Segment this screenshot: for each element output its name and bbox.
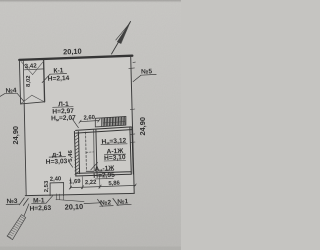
plot boundary: top wall (thick)	[19, 56, 132, 60]
svg-text:№2: №2	[100, 199, 112, 206]
svg-text:Н=2,14: Н=2,14	[48, 75, 70, 83]
paper background	[0, 0, 181, 250]
svg-text:5,86: 5,86	[108, 181, 120, 188]
dimension 2,60	[80, 121, 99, 122]
A-1Zh underline	[104, 153, 125, 156]
K-1 label	[50, 73, 67, 76]
svg-text:№5: №5	[141, 68, 153, 75]
north arrow	[112, 22, 131, 55]
svg-text:Н=2,95: Н=2,95	[93, 172, 115, 180]
K-1 cross	[21, 61, 33, 74]
N=2,95 underline	[95, 177, 113, 180]
svg-text:2,40: 2,40	[50, 176, 62, 183]
plot boundary: left fence	[24, 104, 26, 195]
plot boundary: right fence	[131, 56, 135, 193]
building A-1Zh with annexes: top wall double	[76, 127, 132, 130]
room K-1 (cold annex, top-left)	[19, 60, 20, 104]
svg-text:Н=3,03: Н=3,03	[46, 158, 68, 166]
svg-text:М-1: М-1	[33, 197, 45, 204]
svg-text:24,90: 24,90	[138, 117, 147, 136]
partition	[96, 129, 97, 172]
svg-text:1,69: 1,69	[69, 179, 81, 186]
hatched bar	[7, 215, 26, 240]
svg-text:2,60: 2,60	[83, 115, 95, 122]
svg-text:8,02: 8,02	[26, 75, 32, 87]
d-1 label	[49, 156, 66, 159]
plot interior lighter	[25, 56, 134, 196]
bottom 20,10 dim marks	[56, 194, 58, 200]
porch M-1	[50, 183, 64, 196]
svg-text:№3: №3	[6, 198, 18, 205]
svg-text:20,10: 20,10	[63, 47, 82, 57]
N4	[0, 94, 5, 97]
svg-text:Нм=3,12: Нм=3,12	[101, 137, 126, 145]
plot boundary: bottom fence	[25, 193, 134, 195]
L-1 label	[53, 106, 74, 109]
bottom dimension line of building 1,69/2,22/5,86	[70, 185, 135, 187]
hatched shed strip on top of building	[95, 116, 126, 127]
inner dashed rectangle (mezzanine outline)	[85, 132, 88, 171]
svg-text:Н=3,10: Н=3,10	[104, 154, 126, 162]
svg-text:24,90: 24,90	[11, 126, 20, 145]
N3 underline + slashes + leader	[6, 203, 19, 206]
ticks on right fence	[129, 67, 135, 70]
svg-text:К-1: К-1	[53, 67, 64, 74]
building right wall double	[130, 128, 131, 175]
svg-text:Нм=2,07: Нм=2,07	[51, 115, 76, 123]
N(m)=3,12 underline	[101, 143, 127, 146]
building bottom wall double	[76, 172, 132, 174]
svg-text:20,10: 20,10	[65, 202, 84, 212]
M-1 underline + leader	[32, 202, 46, 205]
svg-text:2,22: 2,22	[85, 180, 97, 187]
svg-text:№4: №4	[5, 87, 17, 94]
A(m) leader	[91, 162, 98, 170]
building left wall double (annex L-1)	[74, 131, 76, 175]
svg-text:5,46: 5,46	[68, 150, 74, 162]
svg-text:3,42: 3,42	[25, 62, 38, 70]
slashes and underlines for N2 N1	[98, 199, 103, 206]
svg-text:Н=2,63: Н=2,63	[29, 205, 51, 213]
N5	[133, 75, 141, 81]
svg-text:№1: №1	[117, 198, 129, 205]
